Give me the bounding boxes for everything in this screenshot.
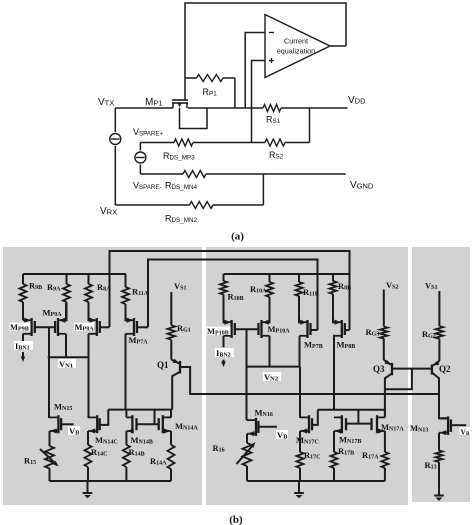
- svg-text:VDD: VDD: [348, 95, 366, 106]
- svg-text:(a): (a): [231, 231, 244, 243]
- svg-text:(b): (b): [229, 514, 243, 525]
- svg-text:Current: Current: [284, 37, 308, 46]
- svg-text:Q1: Q1: [157, 360, 169, 370]
- svg-text:VGND: VGND: [350, 180, 374, 191]
- svg-text:MP1: MP1: [145, 97, 163, 108]
- svg-text:equalization: equalization: [277, 47, 315, 56]
- svg-text:VRX: VRX: [100, 206, 117, 217]
- svg-text:Q3: Q3: [373, 364, 385, 374]
- svg-text:Q2: Q2: [439, 364, 451, 374]
- svg-text:VTX: VTX: [98, 97, 114, 108]
